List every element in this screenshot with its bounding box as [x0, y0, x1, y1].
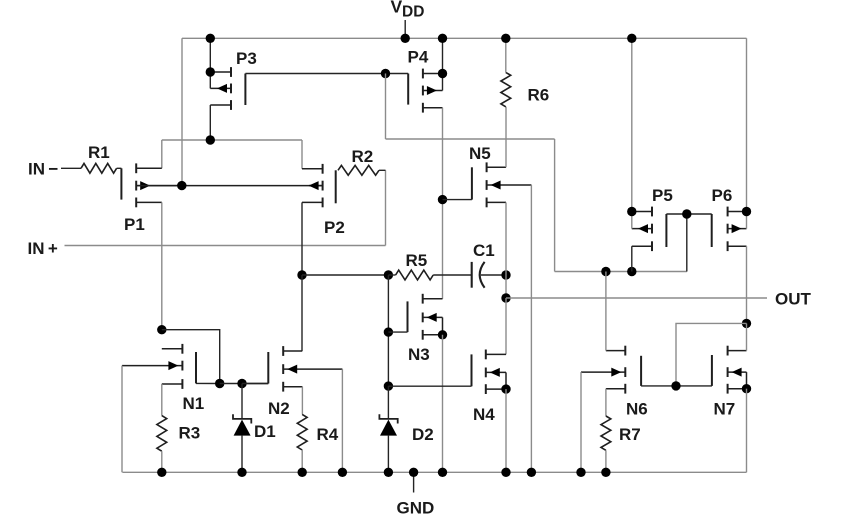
junction: D1 at rail: [237, 468, 246, 477]
wire: P2 drain down: [301, 202, 303, 275]
junction: N6 drain tap: [601, 267, 610, 276]
junction: P3 source at tail bus: [206, 135, 215, 144]
svg-text:N5: N5: [469, 144, 491, 163]
svg-text:P2: P2: [324, 218, 345, 237]
junction: second stage node: [297, 270, 306, 279]
junction: N7 source node: [742, 384, 751, 393]
junction: gate link tap: [682, 209, 691, 218]
junction: N3 source node: [438, 330, 447, 339]
transistor N2: [268, 346, 342, 418]
wire: bias link horizontal: [386, 138, 555, 140]
svg-text:N2: N2: [268, 399, 290, 418]
svg-text:GND: GND: [397, 499, 435, 518]
junction: N4 column at rail: [501, 468, 510, 477]
svg-text:P6: P6: [712, 186, 733, 205]
wire: IN+ line: [65, 245, 386, 247]
svg-text:R3: R3: [179, 424, 201, 443]
ground rail (bottom): [122, 471, 746, 473]
svg-text:D1: D1: [254, 422, 276, 441]
wire: VDD rail to P1/P2 bulk bus: [181, 38, 183, 185]
junction: N2 bulk at rail: [338, 468, 347, 477]
wire: N7 drain up to node: [746, 323, 748, 350]
wire: VDD to P3 drain/bulk: [209, 38, 211, 88]
wire: N5 source down to output node: [505, 202, 507, 275]
diode D2 (zener): [379, 386, 433, 472]
wire: gate drop P5/P6: [686, 214, 688, 272]
wire: OUT node down to N4 drain: [505, 298, 507, 354]
transistor N7: [712, 346, 747, 419]
wire: N5 bulk to ground: [530, 185, 532, 472]
wire: P1 drain down to N1 drain: [161, 202, 163, 329]
junction: D1 top node: [237, 379, 246, 388]
wire: N1/N2 gate bus: [220, 383, 269, 385]
wire: R3 to ground rail: [161, 451, 163, 472]
svg-text:DD: DD: [402, 4, 424, 21]
transistor P1: [121, 163, 181, 234]
junction: P5 at top rail: [627, 34, 636, 43]
wire: N5 gate lead: [443, 199, 472, 201]
junction: P6 drain node: [742, 207, 751, 216]
junction: P5 drain node: [627, 207, 636, 216]
wire: IN- to R1: [61, 167, 81, 169]
wire: N6 source to R7: [605, 389, 607, 416]
junction: R6 at top rail: [501, 34, 510, 43]
junction: N4 gate / D2 node: [384, 381, 393, 390]
transistor N3: [408, 294, 443, 364]
wire: N3 bulk to source: [442, 317, 444, 334]
wire: N1 source to R3: [161, 384, 163, 416]
svg-text:R7: R7: [619, 425, 641, 444]
junction: N6 bulk at rail: [576, 468, 585, 477]
svg-text:R6: R6: [528, 86, 550, 105]
node OUT line: [506, 297, 767, 299]
junction: N3 column at rail: [438, 468, 447, 477]
transistor P2: [302, 164, 345, 237]
junction: N4 source node: [501, 384, 510, 393]
wire: VDD stub: [404, 20, 406, 38]
resistor R5: [396, 251, 434, 280]
wire: N4 gate lead: [388, 385, 471, 387]
junction: C1 at output column: [501, 270, 510, 279]
wire: VDD to P5 drain/bulk: [631, 38, 633, 228]
ground: [413, 472, 415, 492]
junction: P4 at top rail: [438, 34, 447, 43]
wire: tail bus down to P1 source: [161, 140, 163, 168]
junction: bulk bus to VDD: [177, 181, 186, 190]
resistor R3: [157, 416, 200, 452]
wire: node down to N2 drain: [301, 275, 303, 351]
wire: R5 right to C1: [388, 274, 471, 276]
node: P1/P2 bulk bus: [136, 185, 322, 187]
svg-text:V: V: [391, 0, 403, 17]
junction: GND stub at rail: [409, 468, 418, 477]
resistor R4: [297, 414, 338, 450]
resistor R1: [81, 143, 117, 173]
wire: bias link down right side: [554, 139, 556, 272]
junction: N1 drain node: [157, 325, 166, 334]
wire: N7 bulk to source: [746, 372, 748, 389]
junction: P3 drain at VDD column: [206, 67, 215, 76]
wire: VDD to P4 drain/bulk: [442, 38, 444, 90]
junction: gate line tap: [381, 69, 390, 78]
wire: N1 bulk to ground rail: [121, 366, 123, 473]
wire: P5 source down: [631, 246, 633, 271]
wire: N3 source to ground rail: [442, 335, 444, 473]
svg-text:R5: R5: [406, 251, 428, 270]
transistor P5: [632, 186, 673, 251]
svg-text:IN +: IN +: [28, 239, 58, 258]
wire: P6 source down to N7 drain node: [746, 246, 748, 323]
svg-text:P4: P4: [408, 48, 429, 67]
wire: gate line down: [385, 74, 387, 140]
junction: top rail above P3: [206, 34, 215, 43]
wire: R2 to IN+ corner: [379, 169, 386, 171]
OUT label: [775, 290, 812, 309]
svg-text:N1: N1: [183, 394, 205, 413]
wire: bias bus to output stage: [555, 271, 687, 273]
junction: P4 drain at VDD column: [438, 69, 447, 78]
junction: D2 at rail: [384, 468, 393, 477]
resistor R6: [501, 72, 549, 106]
wire: output column: [505, 275, 507, 298]
wire: N6 drain up: [605, 272, 607, 351]
svg-text:R1: R1: [88, 143, 110, 162]
svg-text:OUT: OUT: [775, 290, 812, 309]
diode D1 (zener): [233, 384, 276, 473]
svg-text:P5: P5: [652, 186, 673, 205]
wire: N6 bulk down to ground: [580, 372, 582, 472]
wire: C1 to output column: [481, 274, 506, 276]
svg-text:IN −: IN −: [28, 160, 58, 179]
junction: N7 drain node: [742, 319, 751, 328]
junction: R5 left node: [384, 270, 393, 279]
junction: OUT node: [501, 293, 510, 302]
IN+ label: [28, 239, 58, 258]
wire: node to R5: [302, 274, 388, 276]
junction: N3 gate node: [384, 327, 393, 336]
wire: R4 to ground rail: [301, 450, 303, 472]
svg-text:N3: N3: [408, 345, 430, 364]
wire: N2 bulk down to ground: [341, 369, 343, 472]
junction: R4 at rail: [298, 468, 307, 477]
wire: N2 gate lead: [242, 383, 268, 385]
wire: N7 drain node to gate bus: [676, 323, 747, 386]
GND label: [397, 499, 435, 518]
junction: gate bus tap: [671, 381, 680, 390]
svg-text:N7: N7: [714, 400, 736, 419]
svg-text:P3: P3: [236, 49, 257, 68]
wire: P3 source down to tail bus: [209, 105, 211, 140]
junction: N5 bulk at rail: [527, 468, 536, 477]
transistor N6: [581, 346, 648, 419]
wire: N5 drain up to R6: [505, 107, 507, 168]
power rail VDD (top): [182, 37, 747, 39]
junction: N5 gate tap: [438, 195, 447, 204]
svg-text:R2: R2: [352, 147, 374, 166]
VDD label: [391, 0, 425, 21]
svg-text:D2: D2: [412, 425, 434, 444]
transistor N5: [469, 144, 531, 207]
wire: R7 to ground rail: [605, 450, 607, 472]
wire: N3 gate lead: [388, 331, 407, 333]
wire: tail bus down to P2 source: [301, 140, 303, 169]
transistor P6: [712, 186, 747, 251]
wire: N4 bulk to source: [505, 372, 507, 389]
capacitor C1: [472, 241, 495, 288]
svg-text:P1: P1: [124, 215, 145, 234]
wire: P4 source down to N3 drain: [442, 108, 444, 299]
IN- label: [28, 160, 58, 179]
junction: VDD stub at rail: [401, 34, 410, 43]
wire: VDD right end down to P6: [746, 38, 748, 228]
wire: tail bus P1/P2 sources: [162, 139, 302, 141]
wire: N1 gate lead: [196, 382, 220, 384]
junction: P5 source tap: [627, 267, 636, 276]
wire: N2 source to R4: [301, 387, 303, 415]
transistor P4: [408, 48, 443, 113]
svg-text:C1: C1: [473, 241, 495, 260]
resistor R7: [601, 416, 641, 450]
wire: R1 to P1 gate: [117, 167, 122, 169]
transistor N1: [122, 344, 204, 413]
node: P5/P6 gate link: [666, 213, 711, 215]
svg-text:N4: N4: [473, 405, 495, 424]
wire: N4 source to ground rail: [505, 389, 507, 472]
junction: N1 gate node: [215, 379, 224, 388]
wire: N1 diode loop: [162, 330, 220, 384]
transistor N4: [472, 350, 507, 425]
svg-text:N6: N6: [626, 400, 648, 419]
wire: R5 node down: [387, 275, 389, 386]
svg-text:R4: R4: [317, 425, 339, 444]
junction: R3 at rail: [157, 468, 166, 477]
wire: N7 source to ground rail: [746, 389, 748, 473]
node: N6/N7 gate bus: [641, 385, 712, 387]
node A: P3/P4 gate line: [245, 73, 408, 75]
transistor P3: [210, 49, 256, 110]
junction: R7 at rail: [601, 468, 610, 477]
wire: R6 to VDD rail: [505, 38, 507, 72]
wire: IN+ up to R2: [385, 170, 387, 245]
resistor R2: [338, 147, 379, 175]
